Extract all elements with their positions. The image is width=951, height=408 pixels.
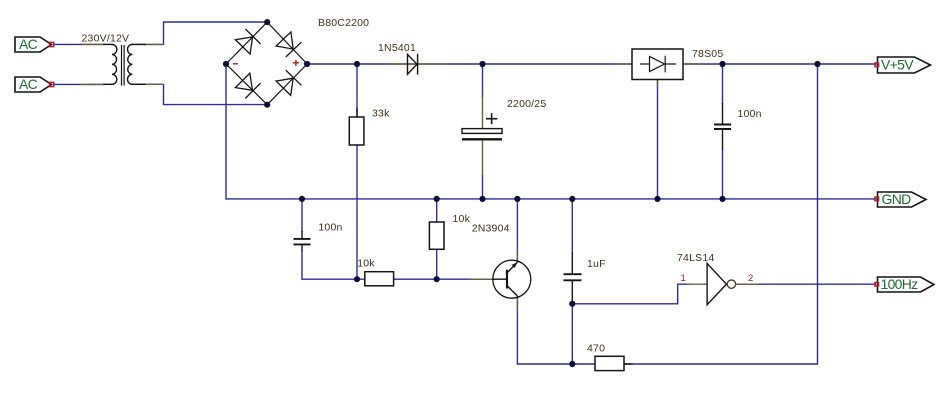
- svg-text:33k: 33k: [372, 108, 390, 120]
- svg-text:100Hz: 100Hz: [881, 276, 919, 292]
- svg-text:1N5401: 1N5401: [378, 42, 416, 54]
- svg-text:10k: 10k: [357, 257, 375, 269]
- svg-text:1: 1: [681, 273, 686, 284]
- svg-text:GND: GND: [882, 191, 912, 207]
- svg-text:2N3904: 2N3904: [472, 223, 510, 235]
- svg-text:74LS14: 74LS14: [677, 252, 714, 264]
- svg-text:AC: AC: [19, 36, 38, 52]
- svg-text:2200/25: 2200/25: [507, 98, 546, 110]
- svg-text:2: 2: [748, 273, 753, 284]
- svg-text:B80C2200: B80C2200: [318, 17, 369, 29]
- svg-text:AC: AC: [19, 76, 38, 92]
- svg-text:1uF: 1uF: [587, 258, 606, 270]
- svg-text:100n: 100n: [738, 108, 762, 120]
- svg-text:78S05: 78S05: [692, 48, 723, 60]
- svg-text:V+5V: V+5V: [881, 57, 914, 73]
- svg-text:10k: 10k: [453, 213, 471, 225]
- svg-text:230V/12V: 230V/12V: [82, 33, 130, 45]
- svg-text:100n: 100n: [318, 222, 342, 234]
- svg-text:470: 470: [587, 343, 605, 355]
